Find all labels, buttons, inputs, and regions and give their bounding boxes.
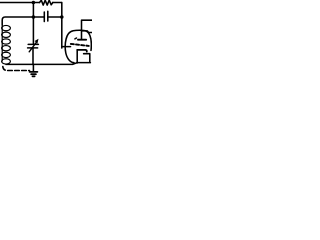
node junction dot right	[60, 15, 64, 19]
wire second bus left with corner	[2, 17, 44, 25]
wire vertical grid feed	[61, 3, 63, 49]
ground	[30, 71, 38, 73]
tube V1 envelope	[65, 30, 91, 62]
dashed gang line	[3, 67, 30, 71]
ground lead	[32, 65, 34, 72]
node junction dot mid	[32, 15, 36, 19]
wire bottom bus	[6, 63, 77, 65]
tube cathode	[77, 50, 87, 52]
wire center vertical	[32, 3, 34, 44]
resistor R1	[40, 0, 53, 5]
tube grid (dashed)	[71, 44, 89, 46]
node junction dot top-left	[32, 1, 36, 5]
capacitor C1 right plate	[47, 11, 49, 21]
wire capacitor to junction	[48, 16, 62, 18]
tube plate lead	[82, 20, 93, 39]
tube grid lead	[62, 46, 71, 48]
capacitor C1 left plate	[43, 12, 45, 22]
variable capacitor C2 bottom plate	[28, 47, 38, 49]
tube heater	[77, 54, 91, 63]
tube plate	[75, 37, 77, 40]
wire top bus	[0, 2, 40, 4]
variable capacitor C2 arrow	[29, 43, 36, 52]
wire screen tap	[82, 31, 93, 33]
inductor L1 coil	[2, 25, 11, 64]
wire varcap lower lead	[32, 48, 34, 65]
tube cathode lead	[76, 50, 78, 63]
variable capacitor C2 top plate	[28, 43, 38, 45]
wire resistor to corner	[53, 2, 62, 4]
